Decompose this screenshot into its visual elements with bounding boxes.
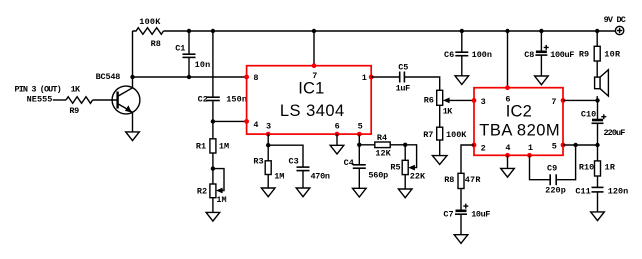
ground: below R7 [432, 156, 447, 165]
capacitor C6 100n [444, 31, 492, 76]
wire: R5 to ground [404, 175, 406, 189]
wire: IC2 pin 7 to output node [563, 99, 598, 101]
svg-text:TBA 820M: TBA 820M [479, 122, 559, 140]
capacitor C7 10uF [443, 189, 490, 235]
node: C9 branch dot [573, 143, 577, 147]
node: collector junction dot [130, 75, 134, 79]
wire: emitter down [132, 112, 134, 132]
wire: down to R1 [212, 121, 214, 138]
svg-text:6: 6 [335, 122, 340, 132]
resistor R9 1K (input) [66, 84, 93, 116]
wire: to IC1 pin 4 [213, 120, 247, 122]
trimmer R5 22K [390, 145, 426, 182]
svg-text:100n: 100n [472, 50, 492, 60]
svg-text:LS 3404: LS 3404 [280, 102, 344, 120]
ground: below R5 [398, 189, 412, 198]
wire: speaker down to pin7 node [596, 96, 598, 100]
ground: below C7 [454, 235, 468, 244]
node: IC2 pin 2 dot [472, 143, 477, 148]
svg-text:R8: R8 [444, 175, 454, 185]
node: IC1 pin 4 dot [244, 119, 249, 124]
node: rail dot at C8 [539, 29, 543, 33]
resistor R3 1M [253, 157, 284, 182]
capacitor C4 560p [344, 145, 389, 189]
svg-text:2: 2 [481, 143, 486, 153]
svg-text:7: 7 [312, 71, 317, 81]
wire: R6 to R7 [439, 105, 441, 127]
svg-text:C6: C6 [444, 50, 454, 60]
wire: left riser node to rail [132, 31, 134, 77]
node: IC2 pin 4 dot [505, 153, 510, 158]
node: R4-R5 junction dot [403, 143, 407, 147]
svg-text:BC548: BC548 [96, 72, 121, 82]
wire: R9 to speaker [596, 61, 598, 77]
node: IC2 pin 1 dot [527, 153, 532, 158]
svg-text:3: 3 [481, 97, 486, 107]
svg-text:C10: C10 [581, 109, 596, 119]
svg-text:R5: R5 [390, 163, 400, 173]
resistor R8 47R [444, 173, 481, 188]
svg-text:12K: 12K [375, 148, 391, 158]
node: rail dot at C6 [460, 29, 464, 33]
wire: IC1 pin 1 to C5 [371, 76, 400, 78]
svg-text:IC2: IC2 [506, 102, 532, 120]
svg-text:9V DC: 9V DC [604, 15, 626, 25]
potentiometer R6 1K [424, 90, 474, 116]
ground: below C3 [296, 188, 310, 197]
resistor R10 1R [579, 145, 616, 176]
node: rail dot at pin7 riser [312, 29, 316, 33]
node: rail dot at C2 [211, 29, 215, 33]
wire: rail down to R9 [596, 31, 598, 46]
svg-text:R10: R10 [579, 163, 594, 173]
ground: below C4 [353, 188, 367, 197]
resistor R7 100K [423, 127, 467, 140]
resistor R4 12K [375, 133, 392, 158]
svg-text:5: 5 [358, 122, 363, 132]
svg-text:C8: C8 [524, 50, 534, 60]
svg-text:C9: C9 [547, 164, 557, 174]
op-amp IC1 LS 3404 [247, 66, 372, 134]
wire: input lead to R9 [53, 99, 66, 101]
capacitor C5 1uF [396, 63, 411, 94]
node: IC1 pin 7 dot [312, 63, 317, 68]
wire: pin 5 down and right to R4 [359, 134, 375, 145]
ground: below R3 [261, 188, 275, 197]
speaker LS1 [595, 70, 609, 96]
wire: horizontal wire to IC1 pin 8 [133, 76, 247, 78]
svg-text:C4: C4 [344, 158, 354, 168]
wire: rail to IC2 pin 6 [507, 31, 509, 88]
node: IC1 pin 8 dot [244, 75, 249, 80]
svg-text:8: 8 [253, 73, 258, 83]
wire: collector up to node [132, 77, 134, 88]
svg-text:220p: 220p [545, 186, 566, 196]
node: R1-R2 wiper junction dot [211, 166, 215, 170]
svg-text:R9: R9 [579, 49, 589, 59]
ground: below C8 [535, 76, 549, 85]
svg-text:NE555: NE555 [27, 95, 53, 105]
svg-text:1R: 1R [605, 163, 616, 173]
capacitor C10 220uF [581, 100, 625, 145]
svg-text:1uF: 1uF [396, 84, 411, 94]
wire: R4 to R5 node [390, 144, 405, 146]
svg-text:C7: C7 [443, 210, 453, 220]
svg-text:10uF: 10uF [471, 210, 490, 220]
wire: C5 to R6 top [404, 77, 439, 90]
svg-text:150n: 150n [226, 95, 247, 105]
node: rail dot at R9 [595, 29, 599, 33]
svg-text:47R: 47R [465, 175, 482, 185]
wire: R2 to ground [212, 198, 214, 213]
resistor R9 10R [579, 46, 621, 61]
svg-text:10R: 10R [604, 49, 621, 59]
node: IC1 pin 3 dot [266, 132, 271, 137]
wire: pin3 branch to C3 [268, 145, 303, 167]
svg-text:1M: 1M [274, 172, 284, 182]
svg-text:1: 1 [362, 73, 367, 83]
wire: IC2 pin 4 down [507, 155, 509, 168]
svg-text:R2: R2 [197, 187, 207, 197]
trimmer R2 1M [197, 169, 227, 205]
svg-text:C5: C5 [398, 63, 408, 73]
node: pin4 branch dot [211, 119, 215, 123]
node: pin7 output junction dot [595, 98, 599, 102]
ground: below C6 [455, 76, 469, 85]
svg-text:4: 4 [253, 120, 258, 130]
node: IC2 pin 6 dot [505, 85, 510, 90]
ground: below R2 [206, 212, 220, 221]
wire: R3 to ground [267, 175, 269, 189]
wire: rail to IC1 pin 7 [313, 31, 315, 66]
svg-text:R1: R1 [196, 141, 206, 151]
power terminal 9V DC [604, 15, 626, 35]
op-amp IC2 TBA 820M [474, 88, 563, 156]
svg-text:120n: 120n [608, 186, 628, 196]
svg-text:R9: R9 [69, 106, 79, 116]
transistor Q1 BC548 [96, 72, 140, 114]
wire: pin 3 down [267, 134, 269, 161]
svg-text:3: 3 [266, 122, 271, 132]
node: pin5 branch dot [357, 143, 361, 147]
svg-text:R3: R3 [253, 157, 263, 167]
node: IC2 pin 3 dot [472, 98, 477, 103]
resistor R8 100K [133, 17, 164, 49]
svg-text:C11: C11 [575, 186, 590, 196]
svg-text:5: 5 [552, 141, 557, 151]
wire: IC2 pin 5 to R10 node [563, 144, 598, 146]
ground: IC1 pin 6 [330, 145, 344, 154]
svg-text:1M: 1M [216, 195, 226, 205]
node: input label PIN 3 (OUT) NE555 [15, 84, 62, 104]
node: rail dot at pin6 riser [505, 29, 509, 33]
svg-text:100K: 100K [446, 130, 467, 140]
svg-text:R6: R6 [424, 96, 434, 106]
svg-text:220uF: 220uF [604, 128, 626, 138]
svg-text:4: 4 [505, 143, 510, 153]
svg-text:1K: 1K [71, 84, 81, 94]
resistor R1 1M [196, 139, 229, 153]
ground: transistor emitter [126, 132, 140, 141]
svg-text:R7: R7 [423, 130, 433, 140]
ground: IC2 pin 4 [501, 168, 515, 177]
wire: top supply rail [164, 30, 616, 32]
svg-text:470n: 470n [311, 172, 331, 182]
svg-text:6: 6 [505, 94, 510, 104]
node: IC2 pin 7 dot [561, 98, 566, 103]
wire: R9 to transistor base [93, 99, 118, 101]
svg-text:100K: 100K [139, 17, 161, 27]
svg-text:R8: R8 [151, 39, 161, 49]
svg-text:10n: 10n [195, 60, 211, 70]
capacitor C3 470n [289, 157, 331, 188]
wire: IC2 pin 2 to R8 [461, 145, 474, 173]
svg-text:100uF: 100uF [550, 50, 574, 60]
svg-text:7: 7 [551, 97, 556, 107]
svg-text:PIN 3 (OUT): PIN 3 (OUT) [15, 84, 62, 94]
node: C1 bottom junction dot [187, 75, 191, 79]
node: IC1 pin 6 dot [335, 132, 340, 137]
node: C10-R10 junction dot [595, 143, 599, 147]
wire: R7 to ground [439, 140, 441, 156]
capacitor C9 220p [530, 145, 576, 196]
svg-text:560p: 560p [368, 170, 388, 180]
capacitor C1 10n [175, 31, 210, 77]
svg-text:C2: C2 [198, 95, 208, 105]
svg-text:C3: C3 [289, 157, 299, 167]
svg-text:1: 1 [528, 143, 533, 153]
ground: below C11 [591, 212, 605, 221]
capacitor C11 120n [575, 176, 628, 212]
node: rail dot at C1 [187, 29, 191, 33]
wire: pin 6 down [336, 134, 338, 145]
capacitor C8 100uF [524, 31, 574, 76]
node: IC1 pin 1 dot [369, 75, 374, 80]
node: IC2 pin 5 dot [561, 143, 566, 148]
svg-text:C1: C1 [175, 44, 185, 54]
svg-text:1M: 1M [219, 141, 229, 151]
capacitor C2 150n [198, 31, 247, 121]
wire: R1 to R2 [212, 153, 214, 184]
svg-text:1K: 1K [443, 107, 453, 117]
node: IC1 pin 5 dot [357, 132, 362, 137]
node: pin3 branch dot [266, 143, 270, 147]
svg-text:IC1: IC1 [298, 80, 324, 98]
svg-text:22K: 22K [410, 172, 426, 182]
svg-text:R4: R4 [377, 133, 387, 143]
